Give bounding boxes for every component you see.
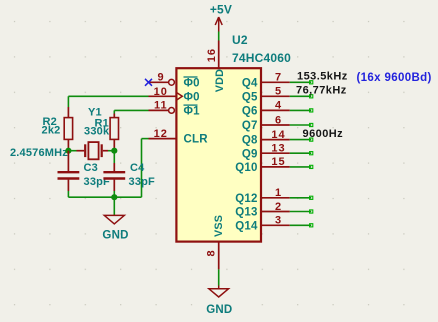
svg-text:74HC4060: 74HC4060 xyxy=(232,51,291,65)
svg-text:153.5kHz: 153.5kHz xyxy=(297,71,348,83)
svg-text:76,77kHz: 76,77kHz xyxy=(296,85,347,97)
svg-text:9: 9 xyxy=(157,72,164,84)
wire Q7 out xyxy=(290,123,313,126)
wire +5V to pin16 xyxy=(218,32,220,41)
pin 14 Q8 xyxy=(242,129,290,147)
svg-text:15: 15 xyxy=(271,156,285,168)
svg-text:13: 13 xyxy=(271,143,285,155)
svg-text:Q8: Q8 xyxy=(242,135,258,147)
svg-text:U2: U2 xyxy=(232,33,248,47)
svg-text:2k2: 2k2 xyxy=(42,125,61,137)
svg-text:Q12: Q12 xyxy=(235,193,257,205)
svg-text:Φ0: Φ0 xyxy=(184,92,200,104)
pin 9 /PHI0 xyxy=(149,72,200,90)
svg-text:10: 10 xyxy=(154,86,168,98)
svg-text:Q10: Q10 xyxy=(235,162,257,174)
pin 6 Q7 xyxy=(242,114,290,132)
resistor R2 xyxy=(42,107,73,151)
pin 11 /PHI1 xyxy=(149,100,201,118)
svg-text:C3: C3 xyxy=(84,162,98,174)
wire Q8 out xyxy=(290,138,313,141)
svg-text:(16x 9600Bd): (16x 9600Bd) xyxy=(357,72,432,84)
svg-text:2.4576MHz: 2.4576MHz xyxy=(10,147,68,159)
pin 3 Q14 xyxy=(235,215,290,233)
svg-text:Q4: Q4 xyxy=(242,77,258,89)
pin 1 Q12 xyxy=(235,187,290,205)
svg-text:VDD: VDD xyxy=(214,69,226,92)
wire pin12 net xyxy=(142,139,149,198)
pin 4 Q6 xyxy=(242,100,290,118)
wire Q5 out xyxy=(290,95,313,98)
svg-text:+5V: +5V xyxy=(210,2,232,16)
IC U2 74HC4060 body xyxy=(176,68,261,241)
pin 2 Q13 xyxy=(235,201,290,219)
resistor R1 xyxy=(84,114,119,151)
pin 10 PHI0 clock input xyxy=(149,86,200,104)
svg-text:Q14: Q14 xyxy=(235,220,258,232)
svg-text:Φ0: Φ0 xyxy=(184,77,200,89)
pin 16 VDD top xyxy=(206,41,219,69)
no-connect X on pin 9 xyxy=(145,79,152,86)
svg-text:Q13: Q13 xyxy=(235,207,257,219)
pin 15 Q10 xyxy=(235,156,290,174)
wire Q9 out xyxy=(290,152,313,155)
svg-text:9600Hz: 9600Hz xyxy=(303,128,344,140)
wire Q6 out xyxy=(290,109,313,112)
svg-text:16: 16 xyxy=(206,48,218,62)
svg-text:Φ1: Φ1 xyxy=(184,106,201,118)
wire pin11 net xyxy=(114,110,148,113)
svg-text:CLR: CLR xyxy=(184,134,209,146)
svg-text:11: 11 xyxy=(154,100,168,112)
wire Q4 out xyxy=(290,81,313,84)
svg-text:3: 3 xyxy=(275,215,282,227)
wire to left ground xyxy=(113,197,115,215)
wire Q10 out xyxy=(290,165,313,168)
svg-text:Y1: Y1 xyxy=(88,107,102,119)
svg-text:GND: GND xyxy=(102,229,128,241)
svg-text:GND: GND xyxy=(206,304,232,316)
ground symbol bottom xyxy=(206,286,232,317)
+5V power symbol xyxy=(210,2,232,31)
wire Q14 out xyxy=(290,224,313,227)
svg-text:C4: C4 xyxy=(130,162,145,174)
wire Q13 out xyxy=(290,210,313,213)
pin 8 VSS bottom xyxy=(206,242,219,270)
svg-text:14: 14 xyxy=(271,129,285,141)
capacitor C3 xyxy=(58,151,111,198)
pin 5 Q5 xyxy=(242,86,290,104)
junction node left xyxy=(65,148,71,154)
svg-text:5: 5 xyxy=(275,86,282,98)
pin 12 CLR xyxy=(149,128,209,146)
svg-text:Q6: Q6 xyxy=(242,106,258,118)
capacitor C4 xyxy=(103,151,155,198)
wire pin10 net xyxy=(68,96,148,107)
svg-text:330k: 330k xyxy=(84,126,110,138)
wire Q12 out xyxy=(290,196,313,199)
svg-text:4: 4 xyxy=(275,100,282,112)
svg-text:VSS: VSS xyxy=(213,215,225,237)
junction node right xyxy=(111,148,117,154)
svg-text:6: 6 xyxy=(275,114,282,126)
crystal Y1 xyxy=(68,142,114,159)
wire ground bus xyxy=(68,196,141,198)
pin 7 Q4 xyxy=(242,72,290,90)
wire pin8 to GND xyxy=(218,269,220,285)
svg-text:Q5: Q5 xyxy=(242,91,258,103)
svg-text:12: 12 xyxy=(154,128,168,140)
svg-text:2: 2 xyxy=(275,201,282,213)
svg-text:7: 7 xyxy=(275,72,282,84)
svg-text:33pF: 33pF xyxy=(129,176,156,188)
pin 13 Q9 xyxy=(242,143,290,161)
junction node ground xyxy=(111,194,117,200)
svg-text:Q9: Q9 xyxy=(242,148,258,160)
ground symbol left xyxy=(102,215,128,241)
svg-text:Q7: Q7 xyxy=(242,120,258,132)
svg-text:1: 1 xyxy=(275,187,282,199)
svg-text:8: 8 xyxy=(206,249,218,256)
